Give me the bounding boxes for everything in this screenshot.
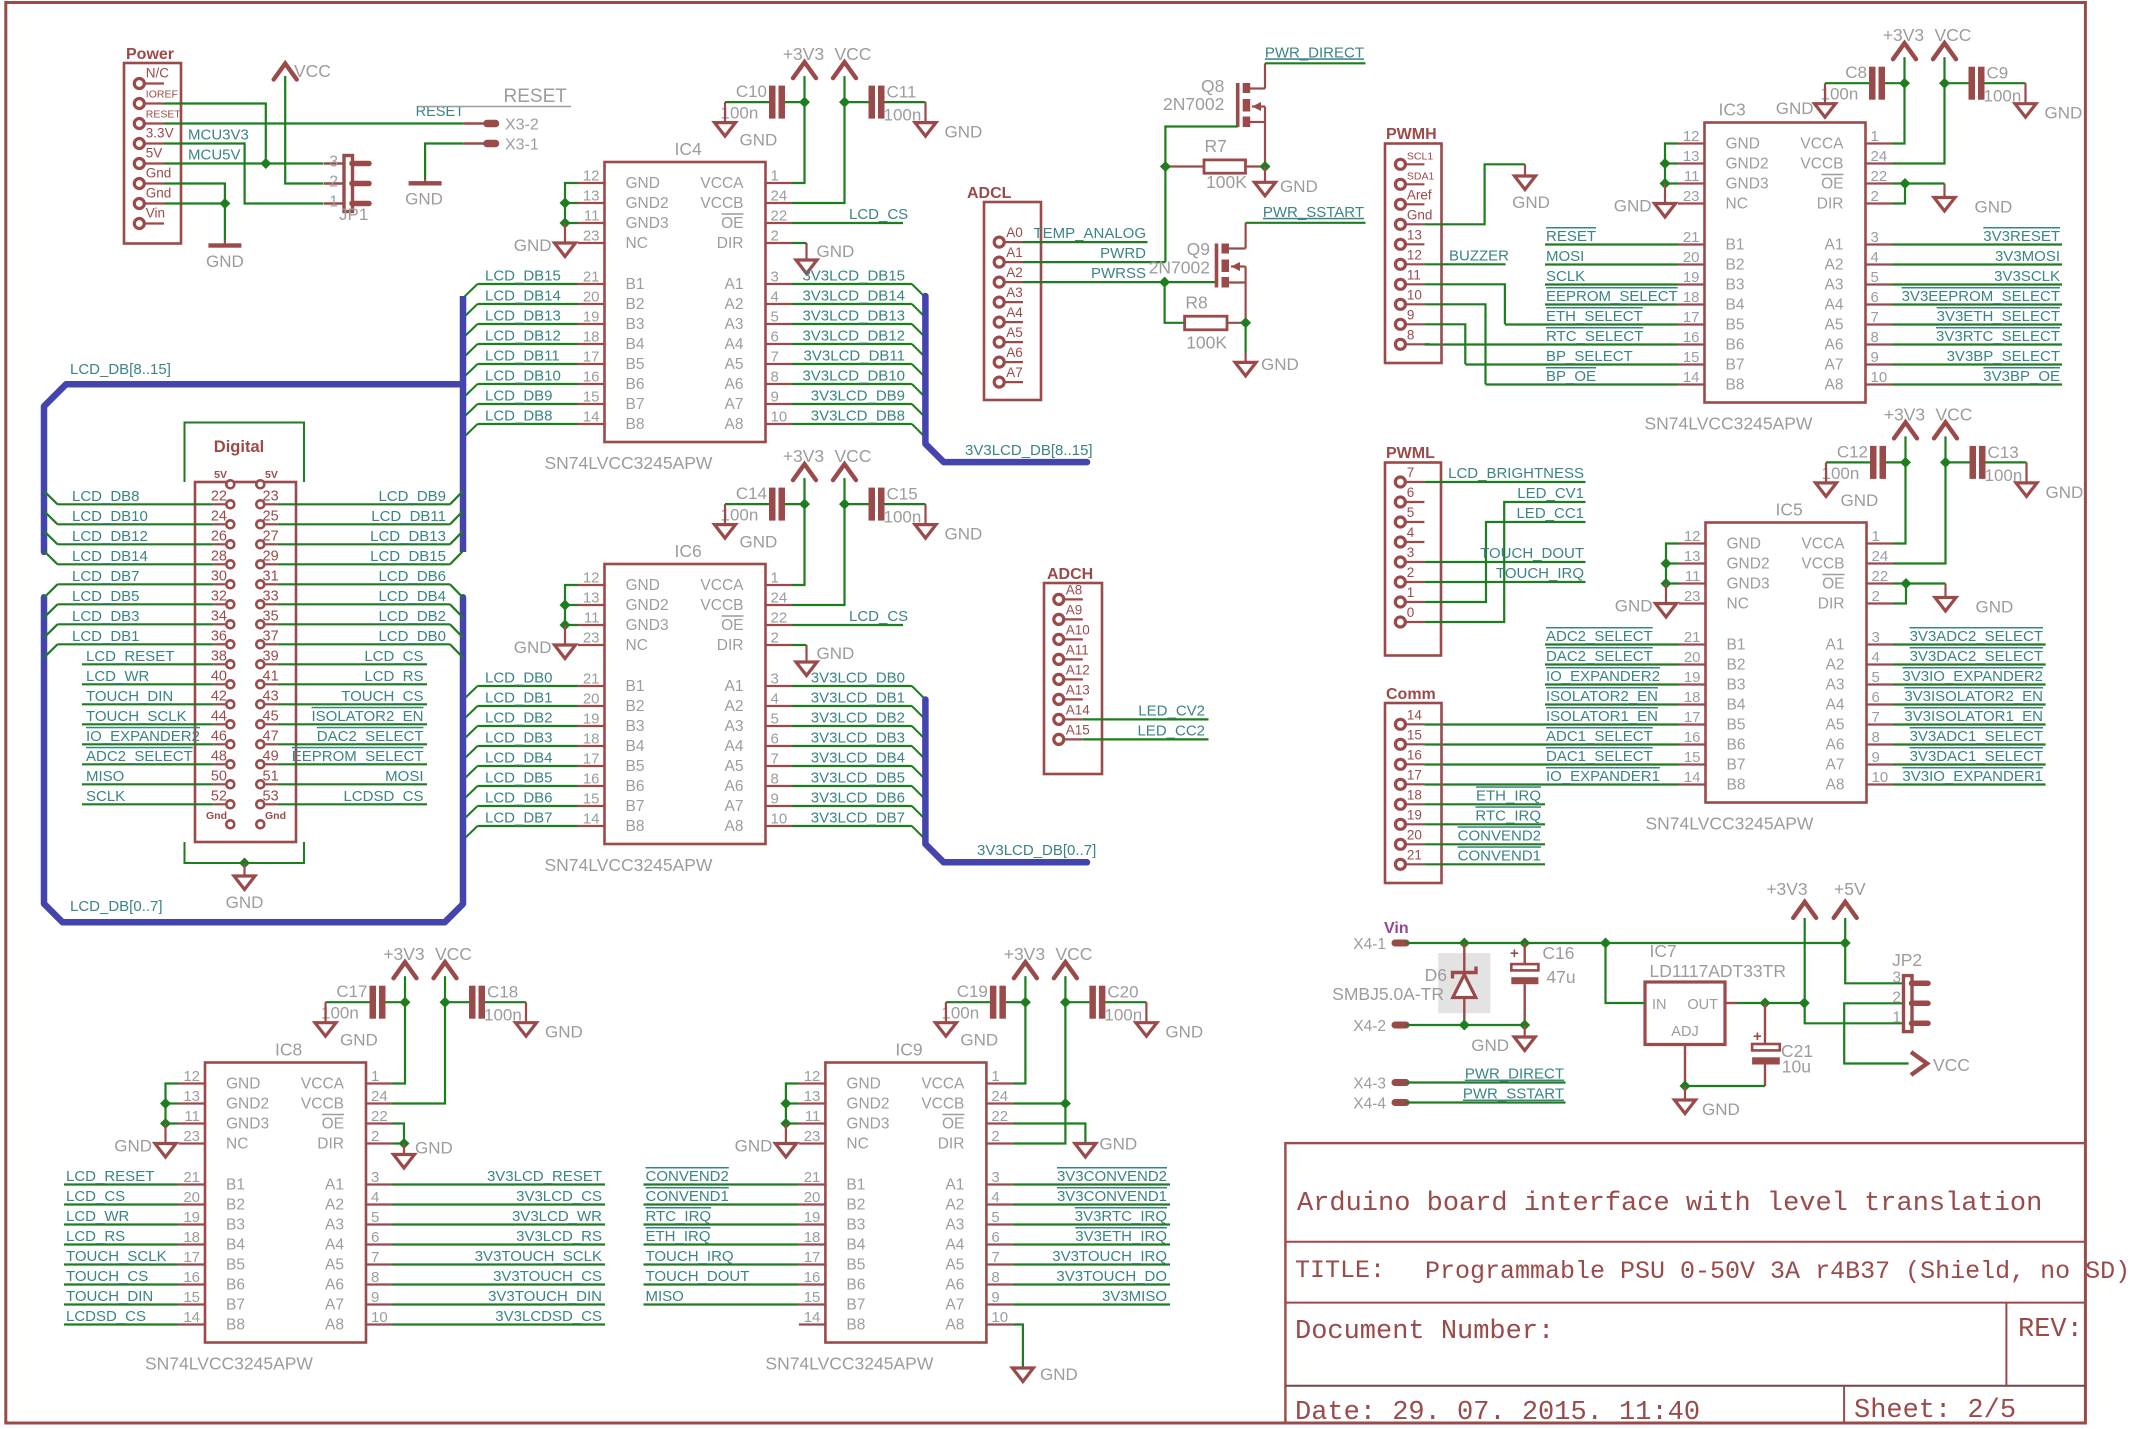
wire PWRSS: [1023, 281, 1217, 283]
wire 3V3LCD_DB1 bus entry: [912, 706, 926, 720]
svg-text:IC5: IC5: [1776, 500, 1803, 520]
wire LCD_DB1 to IC6 B2: [478, 705, 579, 707]
svg-text:B7: B7: [1726, 357, 1745, 374]
svg-text:A8: A8: [725, 416, 744, 433]
svg-text:GND: GND: [514, 236, 552, 255]
wire 3V3DAC2_SELECT from IC5 A2: [1893, 663, 2046, 665]
svg-text:5V: 5V: [214, 469, 227, 481]
svg-text:N/C: N/C: [146, 66, 170, 81]
connector ADCH pin A11 pad: [1054, 654, 1064, 664]
connector Digital right pad row 4: [256, 560, 264, 568]
ground symbol below C10: [715, 123, 736, 137]
wire LCD_DB2 bus entry: [450, 624, 463, 637]
svg-text:DAC2_SELECT: DAC2_SELECT: [317, 728, 424, 745]
wire +3V3 stem IC8: [404, 976, 406, 1002]
IC IC6 pin 23 stub: [578, 644, 605, 646]
wire LCD_DB13 to IC4 B3: [478, 323, 579, 325]
IC IC3 pin 12 stub: [1678, 142, 1705, 144]
connector Comm pin 16 pad: [1395, 759, 1405, 769]
svg-text:RTC_IRQ: RTC_IRQ: [646, 1208, 712, 1225]
IC IC9 pin 24 stub: [986, 1102, 1013, 1104]
wire 3V3LCD_DB5 bus entry: [912, 786, 926, 800]
svg-text:A5: A5: [945, 1257, 964, 1274]
connector Digital right pin stub row LCD_DB2: [265, 623, 277, 625]
connector ADCL pin A3 stub: [1004, 301, 1023, 303]
IC IC4 pin 15 stub: [578, 403, 605, 405]
connector Comm pin 15 pad: [1395, 739, 1405, 749]
junction +3V3 IC4: [799, 97, 810, 108]
title block divider 3: [1285, 1385, 2085, 1387]
connector PWMH pin 10 pad: [1395, 299, 1405, 309]
svg-text:Programmable PSU 0-50V 3A r4B3: Programmable PSU 0-50V 3A r4B37 (Shield,…: [1425, 1257, 2130, 1286]
ground symbol below C11: [915, 123, 936, 137]
ground symbol below IC9 A8: [1012, 1368, 1033, 1382]
svg-text:4: 4: [771, 289, 779, 306]
svg-text:100n: 100n: [1821, 85, 1859, 104]
C12 ground lead: [1825, 462, 1827, 483]
IC IC9 pin 6 stub: [986, 1243, 1013, 1245]
svg-text:B1: B1: [626, 678, 645, 695]
connector PWML pin 2 stub: [1405, 581, 1424, 583]
svg-text:18: 18: [583, 731, 600, 748]
svg-text:IC4: IC4: [675, 139, 703, 159]
svg-text:VCCB: VCCB: [1800, 156, 1843, 173]
svg-text:A4: A4: [945, 1237, 964, 1254]
svg-text:A5: A5: [725, 356, 744, 373]
connector Comm pin 19 stub: [1405, 823, 1424, 825]
wire LCD_CS from IC4 OE: [792, 222, 903, 224]
svg-text:Arduino board interface with l: Arduino board interface with level trans…: [1297, 1189, 2042, 1219]
connector PWML pin 4 pad: [1395, 537, 1405, 547]
svg-text:X3-1: X3-1: [505, 137, 539, 154]
svg-text:3V3LCD_DB6: 3V3LCD_DB6: [811, 790, 905, 807]
wire Gnd1 to chain: [164, 184, 225, 241]
svg-text:GND2: GND2: [846, 1096, 889, 1113]
jumper JP1 pin 3 stub left: [324, 162, 344, 164]
wire LCD_DB1 bus entry: [464, 706, 478, 720]
svg-text:PWR_SSTART: PWR_SSTART: [1463, 1086, 1564, 1103]
svg-text:LCD_DB13: LCD_DB13: [370, 528, 446, 545]
wire LCD_WR from Digital: [82, 683, 213, 685]
connector Digital left pad row 9: [226, 660, 234, 668]
svg-text:A7: A7: [725, 396, 744, 413]
svg-text:A1: A1: [945, 1177, 964, 1194]
svg-text:A3: A3: [945, 1217, 964, 1234]
svg-text:LCD_DB1: LCD_DB1: [485, 690, 553, 707]
svg-text:Vin: Vin: [146, 206, 165, 221]
bus LCD_DB[8..15] right vertical: [460, 296, 467, 552]
IC5 OE ground lead: [1944, 584, 1946, 598]
svg-text:A3: A3: [1825, 277, 1844, 294]
svg-text:PWML: PWML: [1386, 445, 1435, 462]
svg-text:4: 4: [771, 691, 779, 708]
svg-text:36: 36: [211, 628, 227, 644]
wire CONVEND2 from Comm: [1424, 843, 1545, 845]
wire SCLK from Digital: [82, 803, 213, 805]
svg-text:LCD_DB13: LCD_DB13: [485, 308, 561, 325]
svg-text:13: 13: [1407, 227, 1422, 242]
svg-text:IC3: IC3: [1719, 100, 1746, 120]
svg-text:9: 9: [1407, 307, 1415, 322]
svg-text:+: +: [1510, 945, 1519, 962]
connector Digital right pin stub row LCD_DB15: [265, 563, 277, 565]
IC IC3 pin 6 stub: [1866, 303, 1893, 305]
C20 ground lead: [1145, 1002, 1147, 1023]
svg-text:17: 17: [804, 1249, 821, 1266]
wire LCD_DB6 bus entry: [464, 806, 478, 820]
IC IC5 pin 4 stub: [1867, 663, 1894, 665]
connector ADCH pin A8 pad: [1054, 594, 1064, 604]
svg-text:VCC: VCC: [435, 944, 472, 964]
regulator IC7 body: [1645, 982, 1725, 1045]
wire LCD_DB9 bus entry: [464, 404, 478, 418]
svg-text:A7: A7: [325, 1297, 344, 1314]
wire TOUCH_DOUT to IC9 B6: [644, 1283, 799, 1285]
connector ADCH body: [1044, 583, 1102, 774]
junction R8 right Q9 source: [1240, 317, 1251, 328]
connector Digital right pad row 9: [256, 660, 264, 668]
wire 3V3LCD_DB9 bus entry: [912, 404, 926, 418]
diode D6 triangle: [1453, 975, 1476, 998]
C16 ground lead: [1524, 1025, 1526, 1037]
svg-text:3V3CONVEND1: 3V3CONVEND1: [1057, 1188, 1167, 1205]
connector ADCL pin A2 pad: [994, 277, 1004, 287]
svg-text:19: 19: [1683, 269, 1700, 286]
svg-text:CONVEND1: CONVEND1: [646, 1188, 729, 1205]
svg-text:NC: NC: [626, 637, 648, 654]
wire DAC1_SELECT to IC5 B7: [1424, 763, 1679, 765]
svg-text:49: 49: [263, 748, 279, 764]
svg-text:GND: GND: [945, 123, 983, 142]
IC IC4 pin 6 stub: [766, 343, 793, 345]
wire VCCB IC6: [792, 504, 845, 605]
svg-text:3V3TOUCH_CS: 3V3TOUCH_CS: [493, 1268, 602, 1285]
pin X4-4 stub: [1395, 1099, 1406, 1106]
capacitor C16 minus plate: [1511, 977, 1538, 984]
svg-text:ADJ: ADJ: [1671, 1024, 1698, 1040]
IC4 DIR ground lead: [805, 243, 807, 260]
IC IC3 pin 19 stub: [1678, 283, 1705, 285]
pin X4-2 stub: [1395, 1022, 1406, 1029]
junction ADJ ground: [1680, 1081, 1691, 1092]
svg-text:VCC: VCC: [1936, 404, 1973, 424]
svg-text:13: 13: [804, 1088, 821, 1105]
svg-text:REV:: REV:: [2018, 1315, 2083, 1345]
IC IC5 pin 21 stub: [1679, 643, 1706, 645]
svg-text:NC: NC: [846, 1136, 868, 1153]
svg-text:OE: OE: [1821, 176, 1843, 193]
svg-text:24: 24: [1872, 548, 1889, 565]
svg-text:GND: GND: [226, 893, 264, 912]
svg-text:+5V: +5V: [1834, 879, 1866, 899]
connector Digital left pin stub row TOUCH_SCLK: [213, 723, 225, 725]
svg-text:MCU3V3: MCU3V3: [188, 127, 249, 144]
capacitor C21 plus plate: [1752, 1044, 1780, 1050]
svg-text:5: 5: [991, 1209, 999, 1226]
IC IC5 pin 14 stub: [1679, 783, 1706, 785]
svg-text:20: 20: [583, 691, 600, 708]
title block REV divider: [2005, 1303, 2007, 1386]
wire ISOLATOR2_EN to IC5 B4: [1545, 703, 1679, 705]
connector ADCL pin A2 stub: [1004, 281, 1023, 283]
connector PWMH pin 10 stub: [1405, 303, 1424, 305]
wire ADC1_SELECT to IC5 B6: [1424, 743, 1679, 745]
svg-text:C9: C9: [1987, 64, 2009, 83]
X3-1 ground lead: [424, 179, 426, 183]
svg-text:MCU5V: MCU5V: [188, 147, 241, 164]
jumper JP2 bar: [1904, 976, 1913, 1032]
IC3 ground lead: [1664, 184, 1666, 204]
wire LCD_DB7 bus entry: [44, 584, 58, 597]
bus 3V3LCD_DB[0..7]: [925, 700, 1087, 863]
svg-text:B2: B2: [626, 296, 645, 313]
svg-text:GND: GND: [1976, 598, 2014, 617]
connector Digital left pad row 14: [226, 760, 234, 768]
wire VCCA IC4: [792, 102, 805, 183]
svg-text:SN74LVCC3245APW: SN74LVCC3245APW: [545, 453, 713, 473]
connector Digital right pad row 8: [256, 640, 264, 648]
IC IC5 pin 5 stub: [1867, 683, 1894, 685]
connector ADCL pin A3 pad: [994, 297, 1004, 307]
svg-text:B4: B4: [846, 1237, 865, 1254]
svg-text:4: 4: [991, 1189, 999, 1206]
connector Power pin 3.3V pad: [134, 139, 144, 149]
svg-text:14: 14: [183, 1309, 200, 1326]
power +3V3 arrow above IC8: [394, 962, 417, 978]
IC IC8 pin 12 stub: [179, 1082, 206, 1084]
power +3V3 arrow at regulator: [1793, 902, 1816, 918]
wire LCD_RESET from Digital: [82, 663, 213, 665]
wire RESET from Power: [164, 122, 464, 124]
ground symbol at IC3 OE: [1934, 198, 1955, 212]
IC IC8 pin 10 stub: [366, 1323, 393, 1325]
svg-text:A2: A2: [945, 1197, 964, 1214]
connector Power pin IOREF pad: [134, 99, 144, 109]
svg-text:B3: B3: [226, 1217, 245, 1234]
connector PWML pin 7 pad: [1395, 477, 1405, 487]
connector PWML pin 7 stub: [1405, 481, 1424, 483]
wire IC9 GND chain pin13: [786, 1102, 799, 1104]
C11 ground lead: [924, 102, 926, 123]
svg-text:21: 21: [1683, 229, 1700, 246]
wire LCD_DB15 bus entry: [450, 551, 463, 564]
IC IC3 pin 7 stub: [1866, 323, 1893, 325]
svg-text:3V3LCD_DB15: 3V3LCD_DB15: [802, 268, 905, 285]
ground symbol at IC9 OE: [1075, 1144, 1096, 1158]
svg-text:47: 47: [263, 728, 279, 744]
IC IC6 OE overline: [722, 615, 744, 617]
svg-text:OE: OE: [721, 617, 743, 634]
svg-text:5: 5: [1871, 269, 1879, 286]
IC IC8 pin 19 stub: [179, 1223, 206, 1225]
R7 left lead: [1165, 165, 1204, 167]
svg-text:LCD_RS: LCD_RS: [66, 1228, 125, 1245]
junction C16 ground rail: [1519, 1020, 1530, 1031]
wire IC6 GND chain pin13: [565, 604, 578, 606]
svg-text:GND: GND: [1471, 1036, 1509, 1055]
ground symbol below C18: [516, 1023, 537, 1036]
svg-text:TOUCH_CS: TOUCH_CS: [66, 1268, 148, 1285]
svg-text:B8: B8: [1726, 377, 1745, 394]
svg-text:2: 2: [1892, 989, 1901, 1006]
svg-text:TITLE:: TITLE:: [1295, 1256, 1385, 1285]
svg-text:DIR: DIR: [1817, 196, 1844, 213]
connector ADCL pin A6 stub: [1004, 361, 1023, 363]
wire C11 to VCC: [845, 101, 869, 103]
wire +3V3 stem IC9: [1024, 976, 1026, 1002]
connector Digital right pin stub row LCD_DB4: [265, 603, 277, 605]
wire LCD_DB5 bus entry: [44, 604, 58, 617]
svg-text:SN74LVCC3245APW: SN74LVCC3245APW: [1645, 414, 1813, 434]
svg-text:A5: A5: [1826, 717, 1845, 734]
svg-text:IN: IN: [1652, 997, 1667, 1013]
svg-text:VCCB: VCCB: [700, 597, 743, 614]
IC IC3 pin 17 stub: [1678, 323, 1705, 325]
svg-text:22: 22: [771, 208, 788, 225]
IC9 ground lead: [785, 1124, 787, 1144]
svg-text:B4: B4: [626, 336, 645, 353]
svg-text:1: 1: [1892, 1009, 1901, 1026]
power VCC arrow above IC8: [434, 962, 457, 978]
svg-text:LCD_DB1: LCD_DB1: [72, 628, 140, 645]
connector Digital right pin stub row LCD_DB11: [265, 523, 277, 525]
svg-text:RESET: RESET: [1546, 228, 1596, 245]
IC IC5 pin 13 stub: [1679, 562, 1706, 564]
junction +5V Vin: [1840, 938, 1851, 949]
junction R7 left PWRD: [1160, 161, 1171, 172]
svg-text:12: 12: [1407, 247, 1422, 262]
IC IC6 pin 9 stub: [766, 805, 793, 807]
connector Digital left pad row 2: [226, 520, 234, 528]
wire LCD_WR to IC8 B3: [64, 1223, 179, 1225]
svg-text:10: 10: [771, 409, 788, 426]
IC IC5 pin 11 stub: [1679, 582, 1706, 584]
Q9 drain lead: [1229, 247, 1246, 249]
svg-text:LCD_DB14: LCD_DB14: [72, 548, 148, 565]
svg-text:B6: B6: [626, 778, 645, 795]
wire EEPROM_SELECT to IC3 B4: [1545, 303, 1678, 305]
bus 3V3LCD_DB[8..15]: [925, 296, 1087, 462]
svg-text:18: 18: [183, 1229, 200, 1246]
wire IO_EXPANDER1 to IC5 B8: [1424, 783, 1679, 785]
jumper JP2 pin 3 stub: [1912, 981, 1929, 987]
IC IC8 pin 5 stub: [366, 1223, 393, 1225]
ground symbol at IC8 DIR: [394, 1155, 415, 1169]
Q8 bulk lead: [1252, 105, 1265, 107]
wire TEMP_ANALOG: [1023, 241, 1148, 243]
junction VCC IC3: [1939, 78, 1950, 89]
connector ADCH pin A9 stub: [1064, 618, 1083, 620]
transistor Q9 2N7002: [1217, 244, 1230, 288]
IC IC6 pin 21 stub: [578, 685, 605, 687]
svg-text:11: 11: [584, 610, 600, 627]
ground symbol at IC6 DIR: [796, 662, 817, 676]
svg-text:18: 18: [583, 329, 600, 346]
svg-text:13: 13: [583, 188, 600, 205]
svg-text:B5: B5: [1727, 717, 1746, 734]
Power ground lead: [224, 240, 226, 244]
connector Comm pin 14 pad: [1395, 719, 1405, 729]
svg-text:GND: GND: [545, 1023, 583, 1042]
svg-text:SMBJ5.0A-TR: SMBJ5.0A-TR: [1332, 984, 1444, 1004]
Q8 source to R7: [1264, 107, 1266, 167]
IC4 ground lead: [564, 223, 566, 243]
wire EEPROM_SELECT from Digital right: [277, 763, 427, 765]
svg-text:C14: C14: [736, 484, 767, 503]
wire LCD_DB10 from Digital: [58, 523, 214, 525]
wire 3V3LCD_DB15 from IC4 A1: [792, 283, 912, 285]
connector ADCH pin A9 pad: [1054, 614, 1064, 624]
IC IC6 pin 13 stub: [578, 604, 605, 606]
svg-text:3V3LCD_DB12: 3V3LCD_DB12: [802, 328, 905, 345]
svg-text:17: 17: [1683, 309, 1700, 326]
svg-text:34: 34: [211, 608, 227, 624]
svg-text:LCDSD_CS: LCDSD_CS: [66, 1308, 146, 1325]
title block Sheet divider: [1843, 1386, 1845, 1423]
IC IC6 pin 19 stub: [578, 725, 605, 727]
ground symbol below C20: [1136, 1023, 1157, 1036]
svg-text:9: 9: [371, 1289, 379, 1306]
svg-text:X4-1: X4-1: [1353, 936, 1386, 953]
svg-text:EEPROM_SELECT: EEPROM_SELECT: [1546, 288, 1678, 305]
wire LCD_BRIGHTNESS: [1424, 481, 1585, 483]
IC IC3 SN74LVCC3245APW body: [1705, 123, 1866, 403]
svg-text:+3V3: +3V3: [783, 446, 824, 466]
connector PWML pin 1 stub: [1405, 601, 1424, 603]
svg-text:16: 16: [1684, 729, 1701, 746]
wire VCCA IC3: [1892, 83, 1905, 143]
svg-text:B6: B6: [226, 1277, 245, 1294]
connector Digital right pin stub row LCD_DB0: [265, 643, 277, 645]
svg-text:32: 32: [211, 588, 227, 604]
svg-text:35: 35: [263, 608, 279, 624]
svg-text:GND3: GND3: [626, 215, 669, 232]
svg-text:2: 2: [1871, 188, 1879, 205]
svg-text:A3: A3: [725, 718, 744, 735]
svg-text:10: 10: [1872, 769, 1889, 786]
connector Digital right pin stub row MOSI: [265, 783, 277, 785]
svg-text:1: 1: [1407, 585, 1415, 600]
junction IC3 GND pin13: [1660, 158, 1671, 169]
svg-text:B6: B6: [846, 1277, 865, 1294]
wire TOUCH_DIN to IC8 B7: [64, 1303, 179, 1305]
wire LCD_DB13 bus entry: [450, 531, 463, 544]
IC IC3 pin 20 stub: [1678, 263, 1705, 265]
wire TOUCH_CS from Digital right: [277, 703, 427, 705]
wire LCDSD_CS to IC8 B8: [64, 1323, 179, 1325]
wire 3V3LCD_DB12 from IC4 A4: [792, 343, 912, 345]
svg-text:A4: A4: [725, 738, 744, 755]
wire LCD_DB9 to IC4 B7: [478, 403, 579, 405]
svg-text:RESET: RESET: [146, 109, 182, 121]
IC IC3 pin 3 stub: [1866, 243, 1893, 245]
wire LCD_RS to IC8 B4: [64, 1243, 179, 1245]
wire LCD_DB5 bus entry: [464, 786, 478, 800]
connector PWMH pin Aref stub: [1405, 203, 1424, 205]
wire LCD_DB0 bus entry: [464, 686, 478, 700]
svg-text:A2: A2: [1825, 257, 1844, 274]
svg-text:GND2: GND2: [1727, 556, 1770, 573]
connector Power pin RESET stub: [144, 122, 164, 124]
IC IC3 pin 22 stub: [1866, 182, 1893, 184]
wire OE IC8: [393, 1124, 405, 1144]
ground symbol left of IC8: [155, 1144, 176, 1158]
connector Digital right pad row 16: [256, 800, 264, 808]
svg-text:A4: A4: [325, 1237, 344, 1254]
wire PWR_SSTART to X4-4: [1406, 1101, 1566, 1103]
svg-text:SN74LVCC3245APW: SN74LVCC3245APW: [1646, 814, 1814, 834]
svg-text:A6: A6: [325, 1277, 344, 1294]
